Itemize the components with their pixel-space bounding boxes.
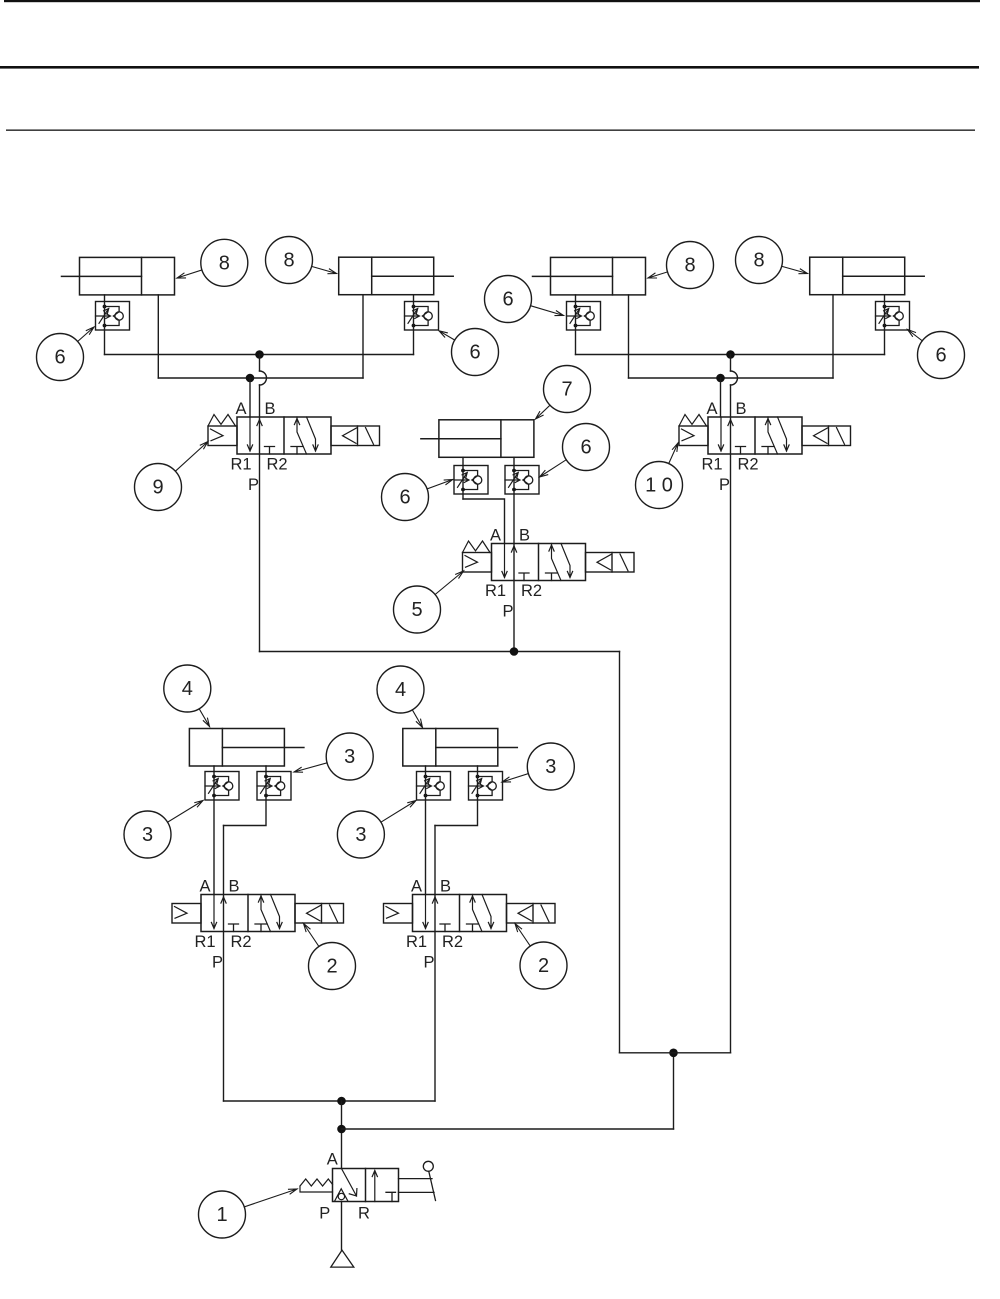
- cylinder 8 (top-right #2): [810, 257, 925, 295]
- wire valve2L B/P line: [223, 826, 225, 1102]
- wire cyl4 left port riser: [832, 295, 834, 378]
- label 7 (cyl7): [536, 366, 591, 420]
- wire valve10 A riser: [720, 378, 722, 417]
- label 4 (lower-left cyl): [164, 665, 211, 727]
- wire valve2R B/P line: [434, 826, 436, 1102]
- label 3 (lr right FC): [502, 743, 574, 790]
- svg-text:R1: R1: [485, 582, 506, 600]
- svg-text:8: 8: [684, 255, 695, 277]
- wire FC4 riser: [884, 295, 886, 355]
- label 5 (valve5): [394, 571, 464, 633]
- wire supply bus mid: [260, 651, 620, 653]
- svg-text:4: 4: [182, 678, 193, 700]
- wire cyl7 A jog: [463, 499, 505, 544]
- svg-text:1: 1: [216, 1204, 227, 1226]
- wire lr B jog: [435, 766, 478, 826]
- svg-text:6: 6: [580, 437, 591, 459]
- svg-text:B: B: [264, 400, 275, 418]
- wire bus A-side top-left: [105, 354, 414, 356]
- wire hop over bus right: [731, 371, 738, 385]
- wire valve9 A riser: [249, 378, 251, 417]
- svg-text:2: 2: [538, 955, 549, 977]
- header thin rule: [6, 130, 975, 131]
- valve 1 lever knob: [423, 1161, 433, 1171]
- svg-text:R2: R2: [521, 582, 542, 600]
- svg-text:6: 6: [502, 289, 513, 311]
- wire valve10 B riser upper: [730, 355, 732, 372]
- valve 2 (lower-right 5/2): [384, 878, 556, 972]
- svg-text:3: 3: [142, 824, 153, 846]
- page top rule: [4, 0, 980, 2]
- wire ll B jog: [224, 766, 267, 826]
- label 8 (cyl4): [736, 237, 808, 284]
- label 3 (lr left FC): [337, 801, 416, 859]
- flow control 3 (lower-left A): [205, 772, 239, 801]
- svg-text:P: P: [502, 603, 513, 621]
- flow control 6 (under cyl4): [876, 302, 910, 331]
- junction dot supply B: [337, 1125, 346, 1134]
- wire cyl3 right port drop: [628, 295, 630, 378]
- svg-text:P: P: [319, 1205, 330, 1223]
- svg-text:B: B: [519, 527, 530, 545]
- label 1 (valve1): [199, 1189, 298, 1238]
- svg-text:3: 3: [344, 746, 355, 768]
- wire valve10 B/P line: [730, 385, 732, 1053]
- wire supply branch right: [342, 1128, 674, 1130]
- flow control 6 (under cyl1): [96, 302, 130, 331]
- label 2 (valve2 left): [304, 924, 356, 990]
- label 8 (cyl2): [266, 237, 337, 284]
- label 8 (cyl1): [177, 239, 248, 286]
- wire cyl1 FC drop: [104, 295, 106, 355]
- valve 10 (5/2 way): [679, 400, 851, 494]
- exhaust triangle: [331, 1250, 354, 1267]
- valve 9 (5/2 way): [208, 400, 380, 494]
- junction dot top-left bus A: [255, 350, 264, 359]
- svg-text:6: 6: [399, 487, 410, 509]
- svg-text:R2: R2: [230, 933, 251, 951]
- junction dot top-right bus A: [726, 350, 735, 359]
- svg-text:8: 8: [219, 252, 230, 274]
- wire valve1 P drop: [341, 1202, 343, 1251]
- svg-text:6: 6: [54, 347, 65, 369]
- svg-text:7: 7: [561, 379, 572, 401]
- wire cyl7 left FC drop: [462, 457, 464, 499]
- svg-text:B: B: [735, 400, 746, 418]
- valve 1 (3/2 way supply valve): [319, 1151, 398, 1223]
- wire mid bus right drop: [619, 652, 621, 1053]
- svg-text:9: 9: [152, 477, 163, 499]
- wire branch riser: [673, 1053, 675, 1129]
- cylinder 8 (top-left #1): [62, 257, 175, 295]
- wire cyl7 right FC / valve5 B-P line: [513, 457, 515, 651]
- svg-text:4: 4: [395, 679, 406, 701]
- wire valve9 B riser upper: [259, 355, 261, 372]
- svg-text:8: 8: [283, 250, 294, 272]
- cylinder 7: [421, 420, 534, 458]
- flow control 6 (under cyl2): [405, 302, 439, 331]
- valve 1 spring: [300, 1179, 333, 1192]
- svg-text:R1: R1: [406, 933, 427, 951]
- svg-text:P: P: [212, 954, 223, 972]
- svg-text:6: 6: [935, 345, 946, 367]
- svg-text:A: A: [706, 400, 717, 418]
- svg-text:8: 8: [753, 250, 764, 272]
- flow control 3 (lower-right B): [469, 772, 503, 801]
- wire upper feed bus: [620, 1052, 731, 1054]
- label 3 (ll left FC): [124, 801, 203, 859]
- svg-text:B: B: [228, 878, 239, 896]
- svg-text:1 0: 1 0: [645, 475, 673, 497]
- junction dot top-left bus B: [246, 374, 255, 383]
- svg-text:2: 2: [326, 956, 337, 978]
- wire bus A-side top-right: [576, 354, 885, 356]
- flow control 3 (lower-left B): [257, 772, 291, 801]
- svg-text:3: 3: [545, 756, 556, 778]
- cylinder 8 (top-left #2): [339, 257, 454, 295]
- svg-text:6: 6: [469, 342, 480, 364]
- svg-text:P: P: [719, 476, 730, 494]
- label 2 (valve2 right): [515, 924, 567, 990]
- label 6 (FC7 left): [382, 474, 453, 521]
- wire supply drop: [341, 1101, 343, 1169]
- svg-text:A: A: [411, 878, 422, 896]
- svg-text:R: R: [358, 1205, 370, 1223]
- wire lr A line: [425, 766, 427, 895]
- junction dot branch top: [669, 1049, 678, 1058]
- label 3 (ll right FC): [294, 733, 373, 780]
- label 6 (FC cyl4): [908, 330, 965, 379]
- svg-text:R2: R2: [266, 456, 287, 474]
- header thick rule: [0, 66, 979, 69]
- svg-text:R1: R1: [194, 933, 215, 951]
- svg-text:R2: R2: [442, 933, 463, 951]
- svg-text:3: 3: [355, 824, 366, 846]
- valve 1 lever: [429, 1171, 436, 1200]
- wire supply bus lower: [224, 1100, 436, 1102]
- wire ll A line: [213, 766, 215, 895]
- label 10 (valve10): [636, 443, 683, 509]
- svg-text:R1: R1: [701, 456, 722, 474]
- svg-text:R2: R2: [737, 456, 758, 474]
- svg-text:P: P: [423, 954, 434, 972]
- cylinder 4 (lower-left): [189, 729, 304, 767]
- cylinder 4 (lower-right): [403, 729, 518, 767]
- svg-text:A: A: [235, 400, 246, 418]
- wire FC2 riser: [413, 295, 415, 355]
- wire cyl1 right port drop: [157, 295, 159, 378]
- junction dot top-right bus B: [716, 374, 725, 383]
- valve 2 (lower-left 5/2): [172, 878, 344, 972]
- flow control 6 (under cyl3): [567, 302, 601, 331]
- valve 5 (5/2 way): [463, 527, 635, 621]
- label 6 (FC cyl2): [439, 329, 499, 376]
- flow control 3 (lower-right A): [417, 772, 451, 801]
- label 9 (valve9): [135, 442, 209, 511]
- svg-text:A: A: [199, 878, 210, 896]
- junction dot supply A: [337, 1097, 346, 1106]
- flow control 6 (cyl7 right): [505, 466, 539, 495]
- wire hop over bus: [260, 371, 267, 385]
- flow control 6 (cyl7 left): [454, 466, 488, 495]
- svg-text:5: 5: [411, 599, 422, 621]
- wire cyl3 FC drop: [575, 295, 577, 355]
- svg-text:A: A: [490, 527, 501, 545]
- wire bus B-side top-left: [158, 377, 363, 379]
- label 8 (cyl3): [648, 242, 714, 289]
- wire cyl2 left port riser: [362, 295, 364, 378]
- cylinder 8 (top-right #1): [533, 257, 646, 295]
- junction dot valve5 P: [510, 647, 519, 656]
- wire bus B-side top-right: [629, 377, 834, 379]
- label 4 (lower-right cyl): [377, 666, 424, 728]
- svg-text:B: B: [440, 878, 451, 896]
- label 6 (FC7 right): [540, 424, 610, 478]
- wire valve9 B/P line: [259, 385, 261, 652]
- svg-text:P: P: [248, 476, 259, 494]
- valve 1 lever links: [399, 1179, 435, 1193]
- svg-text:A: A: [327, 1151, 338, 1169]
- label 6 (FC cyl1): [37, 327, 95, 381]
- svg-text:R1: R1: [230, 456, 251, 474]
- label 6 (FC cyl3): [485, 276, 564, 323]
